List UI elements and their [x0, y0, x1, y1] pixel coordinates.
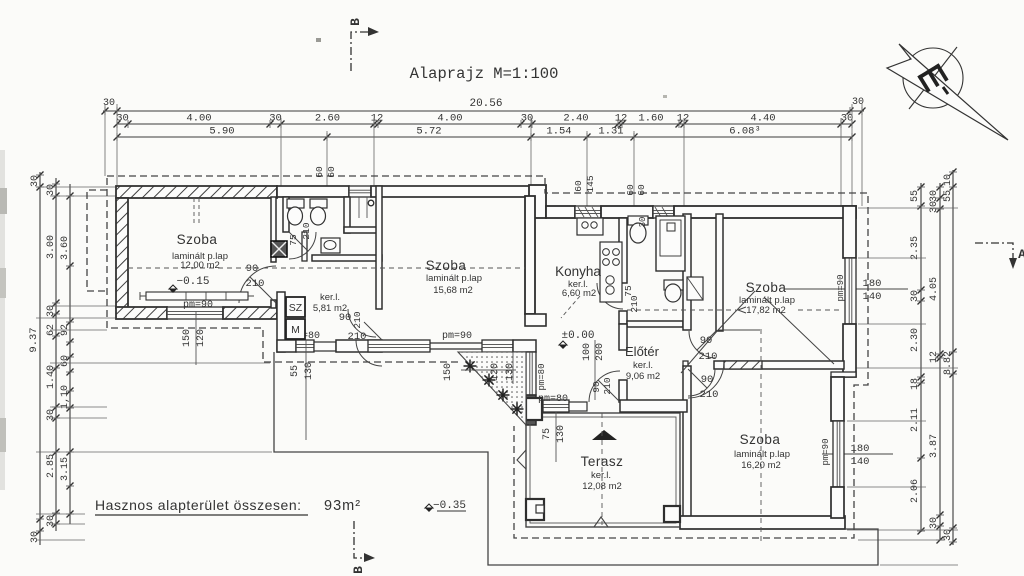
- large entry arc at Elotér: [688, 362, 724, 398]
- svg-text:5,81 m2: 5,81 m2: [313, 303, 347, 314]
- svg-text:pm=90: pm=90: [821, 438, 831, 465]
- svg-text:140: 140: [863, 291, 882, 303]
- chimney block: [271, 241, 287, 257]
- svg-text:60: 60: [636, 184, 647, 196]
- svg-text:60: 60: [314, 166, 325, 178]
- door NW room (90): [239, 266, 276, 303]
- svg-text:30: 30: [30, 175, 41, 187]
- svg-text:Szoba: Szoba: [740, 432, 781, 447]
- svg-text:210: 210: [352, 311, 363, 328]
- window in SE room east wall: [833, 421, 844, 487]
- entrance triangle mark: [592, 430, 617, 440]
- svg-text:12: 12: [615, 113, 628, 125]
- svg-text:130: 130: [505, 363, 516, 381]
- door kitchen east wall (75): [597, 283, 623, 309]
- terasz north wall with window: [543, 400, 569, 412]
- svg-text:30: 30: [46, 409, 57, 421]
- svg-text:150: 150: [443, 363, 454, 381]
- svg-text:12: 12: [677, 113, 690, 125]
- WC 1: [287, 199, 304, 208]
- south wall left of SZ/M window: [277, 340, 296, 352]
- svg-text:pm=80: pm=80: [538, 394, 568, 405]
- west wall of middle Szoba: [376, 186, 382, 309]
- door SE room (90): [688, 369, 715, 396]
- svg-text:120: 120: [490, 363, 501, 381]
- label leader diagonals at NE room: [718, 291, 755, 330]
- svg-text:18: 18: [910, 378, 921, 390]
- WC block middle wall: [344, 197, 350, 233]
- terasz SW post: [526, 499, 544, 520]
- svg-text:2.35: 2.35: [910, 236, 921, 260]
- radiator NW room: [146, 292, 248, 300]
- svg-text:30: 30: [929, 190, 940, 202]
- svg-text:5.90: 5.90: [209, 126, 234, 138]
- svg-text:ker.l.: ker.l.: [591, 470, 611, 481]
- svg-text:10: 10: [943, 174, 954, 186]
- right dimension chain column R3: [952, 170, 954, 545]
- svg-text:30: 30: [116, 113, 129, 125]
- svg-text:pm=90: pm=90: [442, 331, 472, 342]
- left dimension chain column 3: [69, 184, 71, 524]
- top dimension chain row 3: [117, 136, 852, 138]
- kitchen window hatch ticks: [578, 207, 584, 217]
- kitchen sink bowls: [606, 276, 614, 284]
- closet east wall / szoba west wall: [716, 214, 723, 331]
- svg-text:60: 60: [573, 180, 584, 192]
- left extension lines: [36, 186, 116, 188]
- east exterior wall of NE room, below window: [843, 324, 856, 377]
- svg-text:6,60 m2: 6,60 m2: [562, 288, 596, 299]
- svg-text:75: 75: [623, 285, 634, 297]
- svg-text:55: 55: [943, 190, 954, 202]
- svg-text:210: 210: [629, 295, 640, 312]
- door terasz (90): [589, 371, 620, 402]
- water heater: [687, 277, 703, 300]
- svg-text:Szoba: Szoba: [746, 280, 787, 295]
- svg-text:5.72: 5.72: [416, 126, 441, 138]
- WC block west wall: [283, 197, 289, 232]
- svg-text:9.37: 9.37: [28, 327, 40, 352]
- svg-text:12,08 m2: 12,08 m2: [582, 481, 622, 492]
- konyha leader diagonal: [561, 296, 580, 318]
- svg-text:20.56: 20.56: [469, 98, 502, 110]
- wall step between north walls: [529, 185, 546, 218]
- svg-text:Előtér: Előtér: [625, 344, 660, 359]
- terasz slab outline: [526, 413, 680, 527]
- svg-text:12: 12: [929, 351, 940, 363]
- kitchen window in east wing north wall: [575, 206, 601, 218]
- svg-text:130: 130: [556, 425, 567, 443]
- bathroom window in north wall: [653, 206, 674, 218]
- east exterior wall of NE room, above window: [843, 206, 856, 258]
- svg-text:−0.15: −0.15: [176, 276, 209, 288]
- snowflake plants on triangle edge: [464, 365, 477, 367]
- stub west of SE room door: [683, 361, 688, 369]
- left dimension chain column 1: [39, 172, 41, 545]
- svg-text:30: 30: [943, 529, 954, 541]
- svg-text:15,68 m2: 15,68 m2: [433, 285, 473, 296]
- svg-text:4.00: 4.00: [186, 113, 211, 125]
- step at SE corner of NE room: [831, 372, 856, 377]
- window in north wall above WC: [349, 186, 371, 197]
- svg-text:2.30: 2.30: [910, 328, 921, 352]
- east wall of SE room, above window: [831, 377, 844, 421]
- svg-text:30: 30: [46, 184, 57, 196]
- svg-text:145: 145: [585, 175, 596, 192]
- svg-text:210: 210: [246, 278, 265, 290]
- svg-text:6.08³: 6.08³: [729, 126, 761, 138]
- svg-text:210: 210: [602, 377, 613, 394]
- interior wall: east wall of NW room (above door): [271, 197, 276, 262]
- svg-text:60: 60: [60, 355, 71, 367]
- north wall of east wing, right part: [674, 206, 856, 218]
- top extension lines: [104, 104, 106, 176]
- window reveal lines below WC window: [358, 197, 360, 218]
- svg-text:1.54: 1.54: [546, 126, 571, 138]
- WC block south wall (sink wall): [312, 255, 382, 261]
- svg-text:4.00: 4.00: [437, 113, 462, 125]
- svg-text:75: 75: [288, 234, 299, 246]
- svg-text:Hasznos alapterület összesen:: Hasznos alapterület összesen:: [95, 497, 302, 513]
- svg-text:30: 30: [46, 515, 57, 527]
- window dim 180/140 bottom right: [822, 453, 893, 455]
- svg-text:16,20 m2: 16,20 m2: [741, 460, 781, 471]
- bathroom WC: [628, 216, 648, 225]
- svg-text:pm=90: pm=90: [183, 300, 213, 311]
- svg-text:30: 30: [521, 113, 534, 125]
- svg-text:Terasz: Terasz: [581, 454, 624, 469]
- window in NW room bottom wall: [167, 307, 223, 319]
- svg-text:210: 210: [348, 331, 367, 343]
- top dimension chain row 2: [117, 123, 852, 125]
- svg-text:3.60: 3.60: [60, 236, 71, 260]
- svg-text:30: 30: [269, 113, 282, 125]
- interior wall stub: east wall of NW room below door: [271, 300, 276, 308]
- svg-text:30: 30: [929, 201, 940, 213]
- south wall of middle Szoba: window 2: [482, 340, 513, 352]
- svg-text:ker.l.: ker.l.: [320, 292, 340, 303]
- svg-text:−0.35: −0.35: [433, 500, 466, 512]
- svg-text:90: 90: [700, 335, 713, 347]
- west wall of SE room: [683, 366, 691, 520]
- svg-text:60: 60: [326, 166, 337, 178]
- svg-text:100: 100: [582, 343, 593, 361]
- svg-text:30: 30: [910, 290, 921, 302]
- south wall of NE room / north wall of SE room: [714, 361, 844, 369]
- bathroom tall cabinet / shower: [656, 216, 685, 271]
- kitchen sink unit: [577, 218, 603, 235]
- svg-text:150: 150: [182, 329, 193, 347]
- kitchen NW corner piece: [525, 314, 546, 326]
- svg-text:30: 30: [30, 531, 41, 543]
- svg-text:17,82 m2: 17,82 m2: [746, 305, 786, 316]
- svg-text:A: A: [1018, 247, 1024, 262]
- north wall of east wing, mid part: [601, 206, 653, 218]
- svg-text:4.05: 4.05: [929, 277, 940, 301]
- svg-text:30: 30: [638, 217, 648, 228]
- window dim 180/140 top right: [784, 288, 908, 290]
- svg-text:120: 120: [196, 329, 207, 347]
- hatched exterior wall: bottom of NW room, right part: [223, 307, 277, 319]
- svg-text:8.82: 8.82: [943, 351, 954, 375]
- solid wall piece below window band: [526, 395, 536, 425]
- svg-text:2.06: 2.06: [910, 479, 921, 503]
- svg-text:30: 30: [46, 305, 57, 317]
- east wall of SE room, below window: [831, 487, 844, 518]
- hatched repair piece in Elotér south wall: [724, 361, 762, 369]
- svg-text:3.15: 3.15: [60, 457, 71, 481]
- svg-text:laminált p.lap: laminált p.lap: [426, 273, 482, 284]
- wall below right WC: [344, 227, 377, 233]
- door WC block (75): [289, 232, 316, 259]
- kitchen east wall upper: [619, 218, 627, 283]
- svg-text:60: 60: [625, 184, 636, 196]
- svg-text:90: 90: [591, 381, 602, 393]
- svg-text:1,10: 1,10: [60, 385, 71, 409]
- WC stall partition: [302, 232, 307, 261]
- svg-text:210: 210: [700, 389, 719, 401]
- svg-text:2.85: 2.85: [46, 454, 57, 478]
- svg-text:B: B: [351, 566, 366, 574]
- svg-text:180: 180: [863, 278, 882, 290]
- right dimension chain column R2: [939, 183, 941, 540]
- svg-text:55: 55: [910, 190, 921, 202]
- south wall of middle Szoba: open sill between windows: [430, 342, 482, 344]
- door corridor/closet (90): [689, 331, 716, 358]
- door middle szoba SW (90): [348, 309, 376, 337]
- svg-text:3.87: 3.87: [929, 434, 940, 458]
- svg-text:210: 210: [301, 222, 312, 239]
- terasz south chevron mark: [594, 517, 608, 527]
- terasz west chevron mark: [517, 450, 526, 469]
- svg-text:SZ: SZ: [289, 302, 303, 314]
- svg-text:130: 130: [304, 362, 315, 380]
- door hinge dot: [368, 200, 374, 206]
- terasz north wall solid part: [620, 400, 687, 412]
- bathroom east wall: [683, 214, 691, 330]
- south wall of SE room: [680, 516, 845, 529]
- vertical window band south of middle szoba: [526, 352, 536, 395]
- WC 2: [310, 199, 327, 208]
- svg-text:ker.l.: ker.l.: [633, 360, 653, 371]
- svg-text:Szoba: Szoba: [177, 232, 218, 247]
- right dimension chain column R1: [920, 183, 922, 532]
- svg-text:laminált p.lap: laminált p.lap: [734, 449, 790, 460]
- svg-text:±0.00: ±0.00: [561, 330, 594, 342]
- door SZ hall to kitchen area (90): [356, 340, 382, 366]
- east wall of middle Szoba: [525, 196, 535, 314]
- svg-text:2.11: 2.11: [910, 408, 921, 432]
- left dimension chain column 2: [55, 178, 57, 531]
- svg-text:2.40: 2.40: [563, 113, 588, 125]
- svg-text:210: 210: [699, 351, 718, 363]
- svg-text:200: 200: [595, 343, 606, 361]
- svg-text:12: 12: [371, 113, 384, 125]
- south wall of middle Szoba: east pier: [513, 340, 536, 352]
- svg-text:Alaprajz M=1:100: Alaprajz M=1:100: [410, 65, 559, 83]
- kitchen stove burners: [603, 249, 610, 256]
- svg-text:2.60: 2.60: [315, 113, 340, 125]
- west wall of SZ/M closet bay: [277, 292, 285, 352]
- svg-text:30: 30: [841, 113, 854, 125]
- north wall of middle Szoba: [371, 186, 536, 197]
- svg-text:1.60: 1.60: [638, 113, 663, 125]
- svg-text:Szoba: Szoba: [426, 258, 467, 273]
- north wall between NW room and WC block: [277, 186, 349, 197]
- svg-text:12,00 m2: 12,00 m2: [180, 260, 220, 271]
- svg-text:75: 75: [542, 428, 553, 440]
- terasz NW post: [526, 398, 542, 420]
- svg-text:90: 90: [701, 374, 714, 386]
- svg-text:93m²: 93m²: [324, 498, 361, 514]
- kitchen east wall lower: [619, 311, 627, 324]
- svg-text:30: 30: [929, 517, 940, 529]
- Elotér west wall lower: [619, 380, 627, 402]
- hatched exterior wall: bottom of NW room, left part: [116, 307, 167, 319]
- north wall of east wing, left part: [546, 206, 575, 218]
- bathroom south wall: [627, 321, 683, 327]
- small basin in WC block: [321, 238, 340, 253]
- svg-text:55: 55: [290, 365, 301, 377]
- window in SZ/M south wall: [296, 340, 314, 352]
- sill box beside SZ/M window: [314, 342, 336, 351]
- hatched exterior wall: left of NW room: [116, 198, 128, 308]
- svg-text:Konyha: Konyha: [555, 264, 601, 279]
- Elotér west wall upper: [619, 324, 627, 350]
- kitchen counter: [600, 242, 622, 302]
- right extension lines: [858, 207, 958, 209]
- svg-text:90: 90: [246, 263, 259, 275]
- top dimension chain row 1 (20.56): [103, 110, 864, 112]
- svg-text:M: M: [291, 324, 300, 336]
- sill box on terasz north wall: [569, 402, 587, 411]
- window in NE room east wall: [845, 258, 856, 324]
- svg-text:pm=80: pm=80: [537, 363, 547, 390]
- svg-text:3.00: 3.00: [46, 235, 57, 259]
- bathroom washbasin: [664, 280, 683, 290]
- svg-text:9,06 m2: 9,06 m2: [626, 371, 660, 382]
- hatched exterior wall: top of NW room (Szoba 12.00): [116, 186, 277, 198]
- south wall of middle Szoba: window 1: [368, 340, 430, 352]
- svg-text:1.31: 1.31: [598, 126, 623, 138]
- south wall between SZ/M bay and middle Szoba: [336, 340, 382, 352]
- svg-text:1.40: 1.40: [46, 365, 57, 389]
- svg-text:4.40: 4.40: [750, 113, 775, 125]
- svg-text:B: B: [348, 18, 363, 26]
- terasz SE post: [664, 506, 680, 522]
- dashed bay west of NW room: [87, 190, 107, 291]
